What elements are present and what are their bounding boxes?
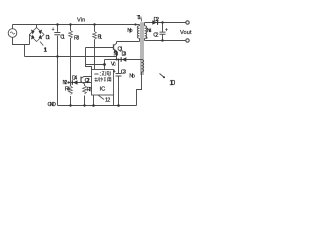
svg-text:C2: C2 xyxy=(153,33,158,39)
svg-text:Vc: Vc xyxy=(111,62,116,68)
svg-text:T1: T1 xyxy=(137,15,142,21)
svg-text:IC: IC xyxy=(100,87,106,93)
svg-text:Np: Np xyxy=(127,28,132,34)
svg-text:Ns: Ns xyxy=(147,28,152,34)
svg-text:Vout: Vout xyxy=(180,30,192,36)
svg-text:C1: C1 xyxy=(60,35,65,41)
svg-text:N3: N3 xyxy=(114,52,119,58)
svg-text:R2: R2 xyxy=(87,87,92,93)
svg-text:D4: D4 xyxy=(72,75,77,81)
svg-text:Nb: Nb xyxy=(129,74,135,80)
svg-text:+: + xyxy=(165,27,168,33)
svg-text:11: 11 xyxy=(44,47,48,53)
svg-text:GND: GND xyxy=(48,102,56,108)
svg-text:D3: D3 xyxy=(122,52,127,58)
svg-text:R1: R1 xyxy=(98,34,103,40)
svg-text:12: 12 xyxy=(105,97,110,103)
svg-text:C3: C3 xyxy=(121,69,126,75)
svg-text:Q2: Q2 xyxy=(85,78,90,84)
svg-text:Vin: Vin xyxy=(77,18,85,24)
svg-text:+: + xyxy=(113,69,116,75)
svg-text:+: + xyxy=(52,27,55,33)
svg-text:D2: D2 xyxy=(154,17,160,23)
svg-text:10: 10 xyxy=(169,78,175,87)
svg-text:R3: R3 xyxy=(74,36,79,42)
svg-text:R4: R4 xyxy=(65,86,70,92)
svg-text:D1: D1 xyxy=(46,35,51,41)
svg-text:N2: N2 xyxy=(63,80,68,86)
